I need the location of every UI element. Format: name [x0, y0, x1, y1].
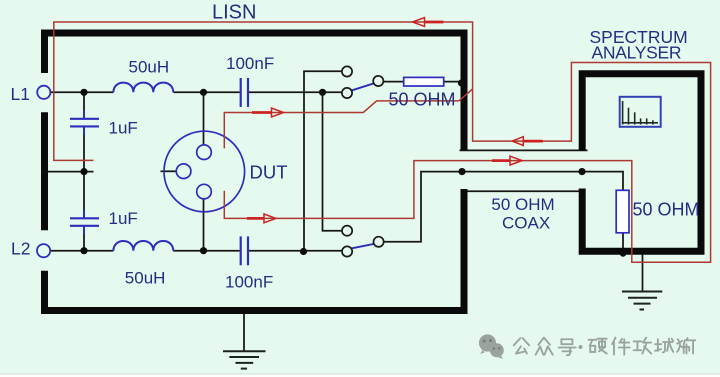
svg-text:50 OHM: 50 OHM — [389, 90, 456, 110]
svg-text:50uH: 50uH — [125, 268, 166, 287]
svg-text:50 OHM: 50 OHM — [491, 195, 554, 214]
svg-text:DUT: DUT — [250, 162, 288, 183]
svg-text:L2: L2 — [11, 238, 30, 258]
svg-text:1uF: 1uF — [109, 209, 138, 228]
svg-text:100nF: 100nF — [226, 54, 274, 73]
svg-text:50 OHM: 50 OHM — [633, 200, 700, 220]
svg-text:LISN: LISN — [212, 2, 256, 24]
svg-text:100nF: 100nF — [225, 272, 273, 291]
svg-text:1uF: 1uF — [109, 118, 138, 137]
svg-text:50uH: 50uH — [129, 57, 170, 76]
svg-text:L1: L1 — [11, 84, 30, 104]
svg-text:ANALYSER: ANALYSER — [592, 43, 682, 63]
svg-text:COAX: COAX — [502, 214, 550, 233]
